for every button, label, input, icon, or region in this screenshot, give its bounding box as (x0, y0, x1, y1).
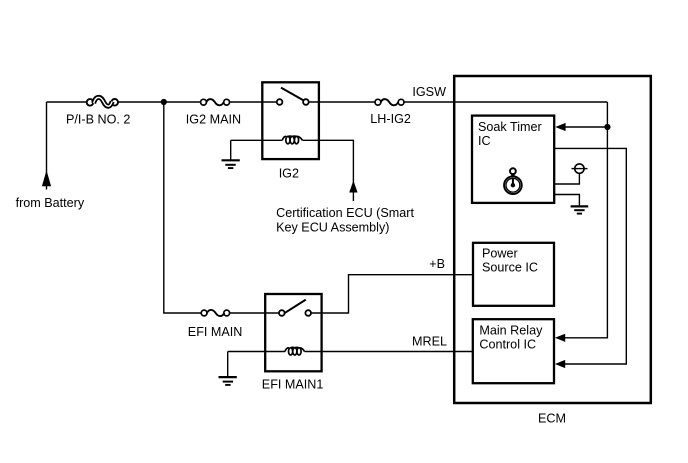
wire: Soak Timer IC output loop to Main Relay Control IC (554, 148, 626, 364)
relay IG2 : coil wire left (from ground) (231, 139, 283, 141)
fusible link P/I-B NO. 2 : wavy band (94, 97, 113, 106)
svg-text:EFI MAIN1: EFI MAIN1 (262, 377, 324, 391)
fuse LH-IG2 : wave (381, 99, 399, 105)
svg-text:LH-IG2: LH-IG2 (370, 112, 411, 126)
wire: EFI MAIN fuse to EFI MAIN1 left contact (227, 312, 282, 314)
wire: IGSW segment (LH-IG2 fuse into ECM) (401, 101, 607, 103)
ground: EFI MAIN1 relay coil (219, 352, 237, 385)
wire: junction drop to EFI MAIN branch (164, 102, 204, 313)
fuse IG2 MAIN : left circle (201, 99, 207, 105)
arrowhead: into Soak Timer IC (555, 123, 565, 131)
wire: top main wire segment 3 (IG2 MAIN fuse to IG2 relay left contact) (227, 101, 280, 103)
arrowhead: from battery (pointing up) (42, 170, 51, 186)
wire: top main wire segment 4 (IG2 relay right contact to LH-IG2 fuse) (306, 101, 378, 103)
wire: MREL from EFI MAIN1 coil to Main Relay Control IC (305, 351, 473, 353)
svg-text:IG2: IG2 (279, 167, 299, 181)
arrowhead: to Certification ECU (pointing up) (349, 181, 357, 193)
relay IG2 : right contact (303, 99, 309, 105)
svg-text:from Battery: from Battery (16, 196, 85, 210)
svg-text:Control IC: Control IC (479, 337, 536, 351)
relay IG2 : coil (282, 136, 302, 144)
svg-text:Main Relay: Main Relay (479, 324, 543, 338)
svg-text:IG2 MAIN: IG2 MAIN (186, 113, 241, 127)
svg-text:EFI MAIN: EFI MAIN (188, 325, 243, 339)
fuse LH-IG2 : right circle (398, 99, 404, 105)
fuse IG2 MAIN : wave (206, 99, 224, 105)
fuse EFI MAIN : wave (207, 310, 224, 316)
relay IG2 : switch blade (281, 88, 303, 101)
node: junction dot on main wire (161, 99, 167, 105)
relay EFI MAIN1 : switch blade (284, 300, 305, 314)
svg-text:IC: IC (478, 134, 491, 148)
svg-text:+B: +B (429, 257, 445, 271)
wire: EFI MAIN1 right contact to +B into Power Source IC (308, 275, 473, 313)
svg-text:P/I-B NO. 2: P/I-B NO. 2 (66, 113, 130, 127)
IC box: Power Source IC (473, 243, 554, 306)
power source symbol (circle with bar) (575, 164, 584, 173)
svg-text:Certification ECU (Smart: Certification ECU (Smart (276, 206, 414, 220)
wire: IG2 coil to Certification ECU (302, 140, 353, 201)
wire: battery drop vertical (46, 102, 48, 190)
svg-text:MREL: MREL (412, 334, 447, 348)
wire: top main wire segment 2 (fusible link to IG2 MAIN fuse) (113, 101, 204, 103)
stopwatch icon in Soak Timer IC (504, 168, 522, 194)
ground: soak timer (571, 206, 589, 213)
relay EFI MAIN1 : box (265, 294, 321, 371)
relay EFI MAIN1 : left contact (279, 310, 285, 316)
fuse EFI MAIN : left circle (201, 310, 207, 316)
wire: branch to Soak Timer IC (565, 126, 608, 128)
svg-text:Power: Power (482, 247, 518, 261)
wire: soak timer power pin (554, 173, 579, 184)
relay EFI MAIN1 : right contact (305, 310, 311, 316)
relay IG2 : left contact (277, 99, 283, 105)
node: junction dot on IGSW drop (604, 124, 610, 130)
svg-text:Source IC: Source IC (482, 261, 538, 275)
svg-text:Soak Timer: Soak Timer (478, 120, 542, 134)
svg-text:Key ECU Assembly): Key ECU Assembly) (276, 220, 389, 234)
arrowhead: into Main Relay Control IC (upper) (555, 334, 565, 342)
wire: battery feed horizontal (top main wire segment 1) (47, 101, 93, 103)
relay EFI MAIN1 : coil wire left (from ground) (228, 351, 285, 353)
fusible link P/I-B NO. 2 : left circle (87, 99, 94, 106)
fuse LH-IG2 : left circle (375, 99, 381, 105)
ECM box (454, 76, 651, 403)
wire: IGSW vertical drop inside ECM (564, 102, 607, 338)
svg-text:IGSW: IGSW (412, 85, 446, 99)
IC box: Main Relay Control IC (473, 319, 554, 383)
svg-text:ECM: ECM (538, 411, 566, 425)
ground: IG2 relay coil (222, 140, 240, 168)
fuse IG2 MAIN : right circle (224, 99, 230, 105)
relay IG2 : box (262, 82, 319, 159)
wire: soak timer ground pin (554, 195, 579, 206)
relay EFI MAIN1 : coil (285, 347, 305, 355)
fusible link P/I-B NO. 2 : right circle (111, 99, 118, 106)
IC box: Soak Timer IC (472, 116, 554, 203)
fuse EFI MAIN : right circle (224, 310, 230, 316)
arrowhead: into Main Relay Control IC (lower) (555, 360, 565, 368)
